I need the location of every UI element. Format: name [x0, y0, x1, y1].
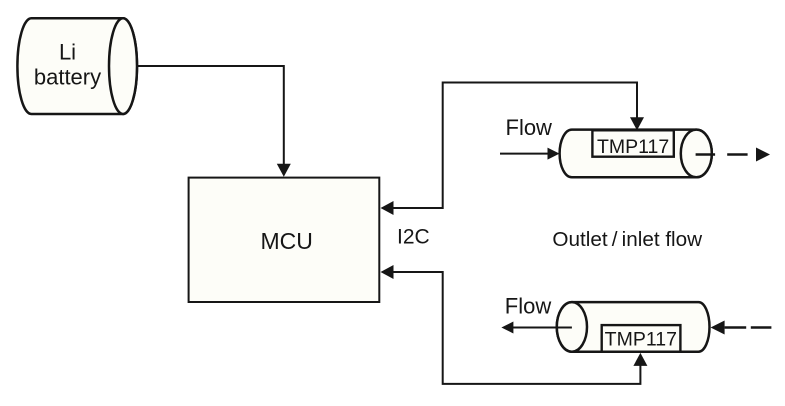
wire battery to MCU [137, 66, 291, 177]
MCU U1 box [189, 178, 380, 302]
battery B1 (Li battery cylinder) [17, 18, 137, 114]
flow arrow out of bottom tube [501, 322, 572, 334]
svg-text:Li: Li [59, 39, 76, 64]
dashed outlet arrow (top right) [696, 148, 770, 162]
svg-text:Flow: Flow [505, 294, 552, 319]
svg-text:Flow: Flow [506, 115, 553, 140]
svg-text:TMP117: TMP117 [597, 136, 669, 158]
svg-text:TMP117: TMP117 [605, 329, 677, 351]
battery label "Li battery" [34, 39, 101, 89]
flow arrow into top tube [500, 148, 560, 160]
sensor U2 TMP117 box (top) [592, 130, 673, 156]
svg-text:battery: battery [34, 64, 101, 89]
svg-text:Outlet / inlet flow: Outlet / inlet flow [552, 228, 702, 251]
svg-text:I2C: I2C [397, 226, 430, 249]
dashed inlet arrow (bottom right) [711, 321, 772, 335]
tube T1 (top flow tube) [560, 130, 712, 178]
wire I2C bus MCU to bottom TMP117 [381, 265, 648, 384]
wire I2C bus MCU to top TMP117 [381, 83, 645, 216]
svg-text:MCU: MCU [261, 228, 313, 254]
tube T2 (bottom flow tube) [557, 302, 710, 352]
sensor U3 TMP117 box (bottom) [602, 325, 681, 352]
